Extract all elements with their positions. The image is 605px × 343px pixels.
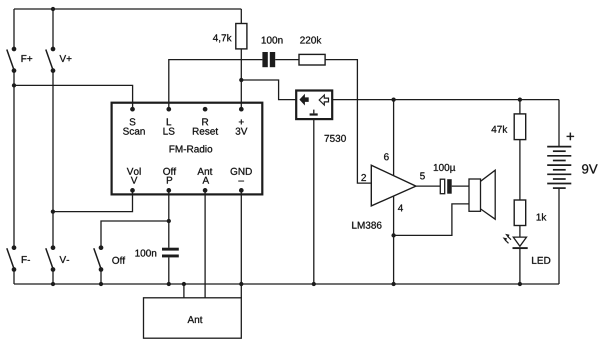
wire battery negative lead: [558, 188, 560, 284]
pin label L: [167, 118, 171, 125]
switch V-: [46, 245, 56, 272]
label 100n C2: [135, 250, 156, 257]
label LM386: [352, 222, 381, 229]
junction left rail / scan: [12, 83, 16, 87]
wire L pin to coupling cap: [169, 60, 263, 110]
pin label Reset: [193, 128, 218, 135]
wire P line upper: [168, 190, 170, 247]
wire off top: switch to P line: [101, 221, 169, 248]
junction 7530 ground: [312, 282, 316, 286]
pin label GND: [231, 168, 252, 175]
label F-: [22, 256, 30, 263]
wire speaker return: [394, 204, 469, 236]
wire 47k to 1k: [519, 140, 521, 200]
pin label A: [203, 177, 210, 184]
label 4,7k: [213, 34, 232, 43]
pin Off: [166, 188, 171, 193]
battery BT1 9V: [547, 147, 571, 189]
pin label LS: [164, 128, 175, 135]
pin label Off: [163, 168, 176, 175]
wire bottom ground rail: [14, 283, 559, 285]
speaker LS1: [469, 170, 495, 219]
label V+: [60, 55, 72, 62]
label Ant box: [188, 316, 203, 323]
junction off / P line: [167, 219, 171, 223]
pin label Ant: [197, 168, 212, 175]
switch V+: [46, 47, 56, 73]
wire left rail F+ to F-: [13, 85, 15, 247]
wire R2 to opamp pin2: [325, 60, 371, 184]
pin label V: [131, 177, 138, 184]
pin number 5: [420, 172, 425, 179]
pin R: [203, 107, 208, 112]
pin label minus: [238, 180, 244, 183]
wire pin4 to ground: [393, 196, 395, 284]
wire pin5 to C3: [416, 185, 440, 187]
op-amp U3 LM386 triangle: [371, 165, 416, 206]
label 47k: [491, 126, 507, 133]
pin label S: [130, 118, 136, 125]
capacitor C1 100n plates: [262, 52, 275, 67]
wire C3 to speaker: [452, 185, 469, 187]
junction V rail / vol: [51, 209, 55, 213]
label F+: [22, 55, 33, 62]
label 100u: [434, 164, 455, 173]
label 1k: [537, 213, 547, 220]
switch F+: [7, 47, 17, 73]
junction V- ground: [51, 282, 55, 286]
wire pin6: [393, 100, 395, 176]
wire 4,7k top stub: [240, 9, 242, 24]
label 220k: [300, 36, 321, 43]
wire V+ upper stub: [52, 9, 54, 49]
junction pin6 feed: [391, 97, 395, 101]
junction pin4 / speaker return: [391, 233, 395, 237]
antenna box Ant: [144, 298, 242, 338]
7530 filled arrow: [299, 94, 308, 106]
pin +3V: [239, 107, 244, 112]
wire top supply rail: [14, 8, 241, 10]
pin label 3V: [236, 128, 248, 135]
wire GND line: [240, 190, 242, 297]
wire F- to ground rail: [13, 270, 15, 285]
wire battery positive lead: [558, 100, 560, 147]
wire V rail: [52, 71, 54, 248]
label battery plus: [567, 133, 574, 140]
wire R1 to +3V pin: [240, 49, 242, 109]
wire C1 to R2: [275, 59, 299, 61]
wire P line lower: [168, 257, 170, 284]
pin number 6: [384, 153, 389, 160]
wire vol: V rail to Vol pin: [53, 190, 133, 211]
label FM-Radio: [170, 145, 213, 152]
junction antenna connector: [182, 282, 186, 286]
junction GND ground rail: [239, 282, 243, 286]
capacitor C3 100u: [440, 179, 451, 194]
pin number 2: [361, 174, 366, 181]
label Off switch: [112, 257, 125, 264]
label V-: [60, 256, 70, 263]
wire feed to 7530: [241, 80, 296, 100]
pin label Scan: [123, 128, 145, 135]
junction off ground: [99, 282, 103, 286]
resistor R2 220k: [299, 54, 325, 65]
switch Off: [94, 245, 104, 272]
IC U1 FM-Radio box: [112, 103, 263, 195]
wire F+ lower stub: [13, 71, 15, 86]
wire Off to ground rail: [100, 270, 102, 285]
pin L: [166, 107, 171, 112]
wire 7530 ground lead: [313, 119, 315, 284]
pin label Vol: [127, 168, 141, 175]
wire 47k top stub: [519, 100, 521, 114]
7530 ground symbol: [310, 110, 318, 116]
LED D1: [513, 237, 528, 248]
capacitor C2 100n plates: [162, 248, 179, 258]
resistor R1 4,7k: [236, 24, 247, 49]
junction R1 / 7530 feed: [239, 78, 243, 82]
junction 47k feed: [518, 97, 522, 101]
pin label plus: [239, 120, 244, 125]
pin label R: [202, 118, 208, 125]
label 9V: [582, 164, 598, 173]
pin Vol: [130, 188, 135, 193]
pin number 4: [398, 205, 403, 212]
label 100n C1: [262, 37, 283, 44]
junction P ground: [167, 282, 171, 286]
resistor R4 1k: [514, 200, 526, 226]
junction V+ on top rail: [51, 7, 55, 11]
wire antenna box connector: [183, 284, 185, 298]
pin Ant: [203, 188, 208, 193]
junction pin4 ground: [391, 282, 395, 286]
pin GND: [239, 188, 244, 193]
wire F+ upper stub: [13, 9, 15, 49]
7530 outline arrow: [319, 95, 328, 105]
resistor R3 47k: [514, 114, 526, 140]
wire 7530 output to battery rail: [332, 99, 559, 101]
wire 1k to LED: [519, 226, 521, 238]
wire LED to ground: [519, 249, 521, 284]
wire scan: F rail to S pin: [14, 85, 133, 109]
junction LED ground: [518, 282, 522, 286]
label LED: [532, 257, 550, 264]
switch F-: [7, 245, 17, 272]
pin S: [130, 107, 135, 112]
IC U2 7530 box: [296, 91, 332, 120]
wire V- to ground rail: [52, 270, 54, 285]
LED light arrows: [503, 234, 511, 244]
wire A line: Ant pin to antenna box: [204, 190, 206, 297]
label 7530: [325, 135, 346, 142]
pin label P: [167, 177, 172, 184]
